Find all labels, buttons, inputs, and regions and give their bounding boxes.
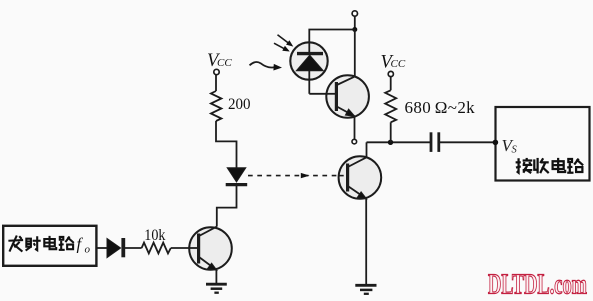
wire diode D1 cathode to resistor R1 (125, 247, 142, 249)
wire Q3 emitter down (354, 116, 356, 139)
wire PD1 anode to Q3 base (309, 93, 336, 95)
label VCC (left) (207, 51, 232, 71)
wire Q1 base stub (189, 247, 199, 249)
receiver circuit box (496, 107, 590, 181)
emitter terminal of inset (352, 139, 357, 144)
wire terminal down to junction (354, 16, 356, 29)
wire box output to diode D1 anode (96, 247, 108, 249)
wire junction down to Q3 collector (354, 30, 356, 77)
label 接收电路 (receiver circuit) (516, 158, 584, 174)
phototransistor Q2 (339, 156, 382, 199)
wire node up to resistor R3 (390, 122, 392, 142)
svg-text:200: 200 (228, 95, 251, 113)
capacitor C1 (431, 132, 439, 152)
wire resistor R3 to VCC terminal (390, 77, 392, 91)
label fo (signal frequency) (77, 235, 91, 256)
resistor R2 200 (211, 91, 222, 121)
wire LED D2 anode to resistor R2 (216, 121, 237, 168)
node VS at receiver box edge (493, 140, 499, 146)
diode D1 (107, 238, 123, 258)
transmitter circuit box (3, 226, 96, 266)
svg-text:CC: CC (217, 57, 232, 69)
LED D2 (emitting diode) (226, 168, 248, 185)
wire Q1 emitter to ground (215, 270, 217, 284)
resistor R1 10k (142, 243, 171, 254)
svg-text:f: f (77, 235, 84, 254)
top collector terminal of phototransistor inset (352, 11, 357, 16)
wire resistor R1 to Q1 base (171, 247, 198, 249)
svg-text:10k: 10k (144, 227, 165, 244)
svg-text:680 Ω~2k: 680 Ω~2k (405, 98, 476, 117)
transistor Q3 (inset phototransistor equivalent) (326, 75, 369, 118)
resistor R3 680ohm-2k (385, 90, 396, 122)
VCC terminal (right) (388, 71, 393, 76)
label VS (502, 136, 518, 156)
ground (below Q1) (206, 284, 227, 293)
wire Q2 emitter to ground (365, 199, 367, 285)
wire Q1 collector to LED D2 (217, 186, 237, 227)
incident light arrow 1 (278, 35, 294, 47)
wire capacitor C1 to receiver box (440, 141, 495, 143)
wavy pointer arrow to phototransistor inset (250, 62, 283, 71)
photodiode PD1 (inset, base-collector diode) (290, 42, 327, 79)
VCC terminal (left) (214, 69, 219, 74)
wire resistor R2 to VCC terminal (215, 75, 217, 92)
wire junction to photodiode PD1 cathode (309, 30, 355, 44)
svg-text:S: S (512, 144, 518, 155)
label VCC (right) (381, 52, 406, 72)
wire collector node to capacitor C1 (367, 141, 431, 143)
wire Q2 collector up to node (366, 142, 368, 157)
svg-text:o: o (85, 244, 91, 256)
transistor Q1 (189, 227, 232, 271)
dashed light-coupling arrow from LED D2 to Q2 (248, 173, 347, 178)
ground (below Q2) (355, 285, 376, 294)
junction node (inset collector net) (352, 27, 357, 32)
svg-text:DLTDL.com: DLTDL.com (488, 270, 587, 301)
label 发射电路 (transmitter circuit) (8, 236, 73, 252)
svg-text:CC: CC (391, 58, 406, 70)
junction node (R3 / Q2 collector / C1) (388, 140, 393, 145)
wire PD1 anode down (308, 71, 310, 94)
incident light arrow 2 (274, 43, 290, 51)
